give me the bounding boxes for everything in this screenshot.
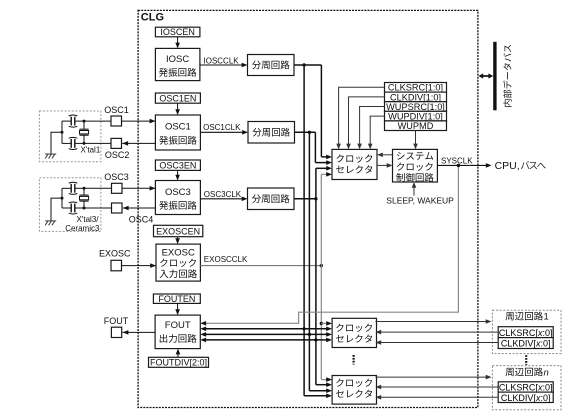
ground <box>45 153 56 155</box>
wire CLKSRC[x:0] to selector 1 <box>380 331 499 333</box>
ground <box>45 220 56 222</box>
wire OSC4 from OSC3 osc to pad <box>123 207 156 209</box>
svg-text:WUPMD: WUPMD <box>398 121 434 131</box>
wire clock line to FOUT and peripheral selector 1 (OSC1) <box>205 333 328 335</box>
svg-text:IOSC: IOSC <box>166 54 189 65</box>
wire OSC1EN to OSC1 <box>177 103 179 110</box>
register CLKSRC[x:0] (peripheral n) <box>498 382 553 392</box>
wire WUPSRC to selector <box>360 107 385 146</box>
wire SLEEP WAKEUP <box>413 186 415 195</box>
svg-text:IOSCCLK: IOSCCLK <box>204 56 240 65</box>
block divider (IOSC) <box>248 55 295 76</box>
wire clock line to FOUT and peripheral selector 1 (IOSC) <box>205 328 328 330</box>
svg-text:OSC3: OSC3 <box>104 172 129 182</box>
register CLKDIV[1:0] <box>385 92 447 102</box>
wire OSC3EN to OSC3 <box>177 170 179 176</box>
svg-text:OSC2: OSC2 <box>105 150 130 160</box>
block OSC1 oscillator <box>155 115 200 150</box>
svg-text:EXOSC: EXOSC <box>162 247 195 258</box>
svg-text:CLKSRC[1:0]: CLKSRC[1:0] <box>388 83 443 93</box>
peripheral circuit n dashed box <box>492 366 561 410</box>
pad FOUT <box>111 327 121 337</box>
block OSC3 oscillator <box>155 181 200 215</box>
svg-text:EXOSCEN: EXOSCEN <box>156 227 200 237</box>
svg-text:OSC3: OSC3 <box>165 187 191 198</box>
register WUPSRC[1:0] <box>385 102 447 112</box>
block EXOSC clock input circuit <box>156 244 200 281</box>
wire EXOSC clock vertical (grey) <box>320 264 323 267</box>
wire FOUTDIV to FOUT <box>177 353 179 357</box>
svg-text:OSC1EN: OSC1EN <box>159 94 196 104</box>
svg-text:OSC1CLK: OSC1CLK <box>203 123 241 132</box>
ellipsis between peripheral boxes <box>525 355 527 365</box>
ellipsis between selectors <box>353 355 355 365</box>
block system clock selector <box>332 149 377 179</box>
register CLKSRC[1:0] <box>385 83 447 93</box>
svg-text:SLEEP, WAKEUP: SLEEP, WAKEUP <box>386 196 454 206</box>
svg-text:CLKDIV[x:0]: CLKDIV[x:0] <box>501 393 551 403</box>
block divider (OSC3) <box>248 188 295 210</box>
svg-text:Ceramic3: Ceramic3 <box>65 224 100 233</box>
internal data bus label (vertical) <box>503 45 511 107</box>
register EXOSCEN <box>154 225 203 236</box>
svg-text:X'tal1: X'tal1 <box>81 145 101 154</box>
register OSC1EN <box>155 93 200 103</box>
wire EXOSC pad to EXOSC input circuit <box>122 265 156 267</box>
block peripheral clock selector 1 <box>332 318 376 347</box>
capacitor (top) <box>62 187 71 189</box>
svg-text:CLKSRC[x:0]: CLKSRC[x:0] <box>499 383 553 393</box>
wire CLKDIV[x:0] to selector 1 <box>380 342 499 344</box>
internal data bus bar <box>493 42 496 111</box>
wire OSC2 from OSC1 osc to pad <box>122 142 155 144</box>
capacitor (top) <box>62 120 71 122</box>
wire OSC1 distribution vertical <box>308 131 311 134</box>
svg-text:CLKDIV[1:0]: CLKDIV[1:0] <box>390 92 441 102</box>
wire SYSCLK feedback to FOUT <box>205 165 459 323</box>
wire OSC3 divided clock <box>294 198 316 200</box>
register CLKDIV[x:0] (peripheral 1) <box>498 338 553 349</box>
svg-text:CLKSRC[x:0]: CLKSRC[x:0] <box>499 328 553 338</box>
pad OSC3 <box>112 183 123 193</box>
wire OSC1 pad to OSC1 osc <box>122 120 156 122</box>
wire clock line to FOUT and peripheral selector 1 (OSC3) <box>205 339 328 341</box>
register OSC3EN <box>155 160 200 170</box>
peripheral 1 label <box>506 312 543 321</box>
svg-text:FOUTEN: FOUTEN <box>158 294 195 304</box>
svg-text:EXOSC: EXOSC <box>99 248 131 258</box>
wire OSC1 divided clock <box>295 131 316 133</box>
svg-text:CLKDIV[x:0]: CLKDIV[x:0] <box>501 339 551 349</box>
block system clock controller <box>393 149 438 182</box>
svg-text:CPU,: CPU, <box>495 160 520 172</box>
CLG block dashed border <box>138 10 478 407</box>
crystal <box>83 188 85 195</box>
wire selector to controller (clock) <box>377 164 388 166</box>
block divider (OSC1) <box>248 122 295 144</box>
pad OSC1 <box>111 116 122 126</box>
svg-text:EXOSCCLK: EXOSCCLK <box>204 255 248 264</box>
wire CLKSRC[x:0] to selector n <box>380 386 499 388</box>
wire WUPMD to system clock controller <box>415 131 417 146</box>
register WUPDIV[1:0] <box>385 111 447 121</box>
register WUPMD <box>385 121 447 131</box>
svg-text:FOUTDIV[2:0]: FOUTDIV[2:0] <box>150 358 207 368</box>
wire selector1 output to peripheral 1 <box>375 321 487 323</box>
svg-text:FOUT: FOUT <box>165 320 191 331</box>
wire CLKDIV[x:0] to selector n <box>380 396 499 398</box>
block peripheral clock selector n <box>332 376 376 405</box>
wire OSC1CLK to divider <box>200 131 243 133</box>
svg-text:SYSCLK: SYSCLK <box>441 157 473 166</box>
wire: cap left common <box>61 188 63 208</box>
svg-text:n: n <box>544 367 549 378</box>
svg-text:IOSCEN: IOSCEN <box>160 27 195 37</box>
wire SYSCLK output <box>437 164 487 166</box>
wire: cap left common <box>61 121 63 143</box>
svg-text:OSC1: OSC1 <box>104 105 129 115</box>
wire EXOSCCLK <box>200 265 321 267</box>
peripheral n label <box>506 367 543 376</box>
pad EXOSC <box>111 260 122 271</box>
wire IOSC divided clock: horizontal + vertical to system selector <box>294 64 321 66</box>
wire WUPDIV to selector <box>370 116 384 145</box>
register FOUTDIV[2:0] <box>149 357 209 367</box>
wire FOUT output to FOUT pad <box>123 331 156 333</box>
wire OSC3 pad to OSC3 osc <box>122 187 155 189</box>
wire FOUTEN to FOUT <box>177 303 179 310</box>
svg-text:WUPSRC[1:0]: WUPSRC[1:0] <box>386 102 445 112</box>
wire CLKSRC to selector <box>339 87 385 145</box>
wire selector n output to peripheral n <box>375 376 487 378</box>
svg-text:OSC3CLK: OSC3CLK <box>204 190 242 199</box>
crystal <box>83 121 85 129</box>
block FOUT output circuit <box>155 315 200 349</box>
svg-text:OSC3EN: OSC3EN <box>159 161 196 171</box>
wire IOSCCLK to divider <box>200 64 243 66</box>
svg-text:1: 1 <box>544 312 549 323</box>
svg-text:OSC1: OSC1 <box>165 122 191 133</box>
svg-text:CLG: CLG <box>141 12 164 24</box>
pad OSC2 <box>111 138 122 148</box>
register IOSCEN <box>155 27 200 37</box>
wire CLKDIV to selector <box>349 97 385 145</box>
wire OSC3CLK to divider <box>200 198 243 200</box>
svg-text:X'tal3/: X'tal3/ <box>77 215 100 224</box>
wire IOSC distribution vertical <box>302 63 305 66</box>
register CLKSRC[x:0] (peripheral 1) <box>498 327 553 338</box>
pad OSC4 <box>112 203 123 213</box>
register CLKDIV[x:0] (peripheral n) <box>498 392 553 402</box>
register FOUTEN <box>153 294 200 303</box>
wire IOSCEN to IOSC <box>177 37 179 44</box>
svg-text:WUPDIV[1:0]: WUPDIV[1:0] <box>388 112 443 122</box>
bus double arrow <box>482 75 491 77</box>
X'tal1 dashed box <box>39 111 101 162</box>
svg-text:OSC4: OSC4 <box>129 215 154 225</box>
block IOSC oscillator <box>155 48 200 80</box>
wire controller to selector (select) <box>381 154 392 156</box>
svg-text:FOUT: FOUT <box>104 316 129 326</box>
wire EXOSCEN to EXOSC <box>177 237 179 240</box>
peripheral circuit 1 dashed box <box>492 310 561 353</box>
X'tal3/Ceramic3 dashed box <box>39 178 101 232</box>
